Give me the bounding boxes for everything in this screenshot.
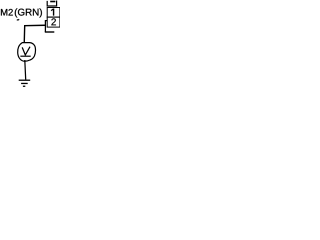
- wire stub right: [45, 31, 55, 33]
- ground: [19, 80, 31, 86]
- pin 1 box: [47, 8, 60, 18]
- connector label M2 (GRN): [1, 9, 13, 16]
- voltmeter V glyph: [22, 47, 30, 55]
- stray mark: [16, 19, 19, 21]
- wire to voltmeter: [24, 25, 45, 42]
- voltmeter V1 body (flat-top circle): [18, 43, 36, 62]
- wire to ground: [24, 60, 27, 80]
- connector housing: [47, 1, 56, 7]
- pin 2 box: [47, 17, 60, 27]
- voltmeter DC underline: [20, 55, 30, 57]
- wire from pin 2: [45, 21, 47, 32]
